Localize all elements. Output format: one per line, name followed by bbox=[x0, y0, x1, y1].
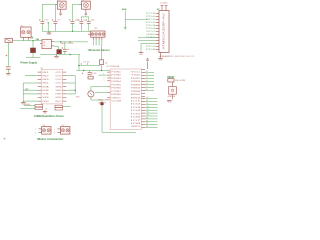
svg-text:NC: NC bbox=[55, 101, 63, 103]
connector X5 motor B bbox=[61, 127, 70, 135]
svg-text:BUZZER: BUZZER bbox=[98, 99, 112, 101]
svg-text:P1/IN1: P1/IN1 bbox=[111, 72, 121, 74]
svg-text:7805T TO220: 7805T TO220 bbox=[60, 43, 73, 45]
svg-text:10u: 10u bbox=[67, 49, 70, 51]
wire sense row 2 bbox=[20, 107, 35, 109]
connector JP2 sensor header bbox=[91, 31, 105, 37]
wire mid ground rail bbox=[76, 70, 110, 72]
ground symbol top rail bbox=[48, 31, 50, 33]
svg-text:X3: X3 bbox=[43, 125, 45, 127]
wire R2 to rail bbox=[101, 65, 103, 71]
svg-text:D3: D3 bbox=[146, 80, 148, 82]
svg-text:ENB: ENB bbox=[42, 90, 50, 92]
wire from X4 left pin bbox=[73, 3, 80, 5]
svg-text:C11 10n: C11 10n bbox=[83, 62, 90, 64]
IC4 left pins with labels bbox=[156, 13, 160, 15]
IC4 bottom stub and gnd bbox=[160, 53, 162, 59]
svg-text:100u: 100u bbox=[44, 20, 48, 22]
svg-text:ENA: ENA bbox=[42, 85, 50, 88]
origin cross mark bbox=[3, 137, 6, 140]
svg-text:JP2: JP2 bbox=[94, 28, 97, 30]
svg-text:D10: D10 bbox=[146, 106, 149, 108]
wire down to C5 bbox=[88, 17, 90, 19]
wire ground rail mid bbox=[40, 54, 80, 56]
plus marks on 5V line bbox=[81, 63, 89, 64]
wire second output pin bbox=[54, 45, 58, 47]
wire R1 to switch bbox=[172, 82, 174, 87]
svg-text:SENSA: SENSA bbox=[24, 103, 31, 106]
junction 5V line bbox=[78, 65, 79, 66]
IC1 left pin wires bbox=[25, 75, 38, 77]
ground symbol under C6 bbox=[6, 73, 11, 75]
junction mid rail a bbox=[83, 70, 84, 71]
ground symbol mid rail bbox=[56, 55, 58, 57]
capacitor C3 bbox=[72, 19, 74, 21]
svg-text:GND: GND bbox=[47, 34, 52, 36]
svg-text:L298N Dual Motor Driver: L298N Dual Motor Driver bbox=[34, 114, 65, 118]
svg-text:IO6: IO6 bbox=[131, 117, 141, 119]
pin stubs X5 bbox=[57, 128, 60, 130]
svg-text:GND: GND bbox=[42, 101, 49, 103]
capacitor C4 bbox=[80, 19, 82, 21]
wire 5V output bbox=[54, 41, 88, 43]
wire C8 down bbox=[57, 46, 59, 49]
svg-text:GND1: GND1 bbox=[111, 97, 121, 99]
ground rail wire top bbox=[42, 30, 93, 32]
ground under bend bbox=[139, 52, 144, 54]
svg-text:D6: D6 bbox=[146, 89, 148, 91]
connector X4 power jack bbox=[82, 1, 91, 9]
wire X2 pins down bbox=[22, 40, 24, 41]
svg-text:PWM1: PWM1 bbox=[131, 81, 141, 83]
svg-text:D7: D7 bbox=[146, 97, 148, 99]
svg-text:ARDUINO UNO R3: ARDUINO UNO R3 bbox=[175, 55, 195, 58]
svg-text:D9: D9 bbox=[146, 103, 148, 105]
svg-text:P7/IN7: P7/IN7 bbox=[111, 91, 121, 93]
svg-text:PD3: PD3 bbox=[146, 25, 155, 27]
wire X4 bottom net bbox=[85, 16, 87, 18]
svg-text:IO4: IO4 bbox=[131, 110, 141, 112]
wire down to C3 bbox=[72, 4, 74, 19]
svg-text:IO5: IO5 bbox=[131, 113, 141, 115]
svg-text:GND: GND bbox=[55, 57, 60, 59]
wires JP2 down bbox=[92, 40, 94, 46]
svg-text:IC3 ULN2803A: IC3 ULN2803A bbox=[107, 65, 120, 68]
pin stubs JP2 bottom bbox=[92, 37, 94, 40]
wire IC3 left pin c bbox=[95, 92, 107, 94]
svg-text:OUT1: OUT1 bbox=[55, 72, 61, 74]
wire net from X1 left pin bbox=[42, 3, 55, 5]
resistor R7 on vertical bbox=[100, 102, 103, 105]
IC1 right pin stubs bbox=[63, 71, 67, 73]
svg-text:VSS: VSS bbox=[42, 97, 50, 99]
svg-text:P6/IN6: P6/IN6 bbox=[111, 88, 121, 90]
svg-text:VIN: VIN bbox=[36, 39, 40, 41]
svg-text:1: 1 bbox=[103, 73, 104, 75]
wire 5V rail drop bbox=[78, 55, 80, 71]
junction top rail bbox=[72, 31, 73, 32]
svg-text:1: 1 bbox=[54, 129, 55, 131]
supply +5V arrow under X4 bbox=[85, 12, 87, 16]
wire down to C2 bbox=[54, 4, 56, 19]
svg-text:OUT3: OUT3 bbox=[55, 79, 61, 81]
wire down to C1 bbox=[41, 4, 43, 19]
IC3 right pins top group bbox=[142, 68, 146, 70]
svg-text:PD5: PD5 bbox=[146, 46, 155, 48]
wire bend down to gnd bbox=[140, 44, 142, 53]
IC4 top power stubs bbox=[161, 6, 163, 11]
svg-text:PD6: PD6 bbox=[146, 49, 155, 51]
diode D1 bbox=[5, 38, 12, 42]
ground under left bus bbox=[22, 101, 24, 102]
wire right bus vertical bbox=[74, 76, 76, 94]
svg-text:PD2: PD2 bbox=[146, 22, 155, 24]
svg-text:1: 1 bbox=[35, 129, 36, 131]
svg-text:SDA: SDA bbox=[122, 8, 127, 11]
wire IC3 left pin a bbox=[99, 74, 108, 76]
svg-text:D13: D13 bbox=[146, 115, 149, 117]
svg-text:IO8: IO8 bbox=[131, 123, 141, 125]
wire buzzer top bbox=[90, 87, 92, 91]
wire C7 to gnd wire bbox=[32, 53, 34, 58]
junction mid rail bbox=[69, 54, 70, 55]
svg-text:P3/IN3: P3/IN3 bbox=[111, 78, 121, 80]
svg-text:X5: X5 bbox=[62, 125, 64, 127]
svg-text:IO7: IO7 bbox=[131, 120, 141, 122]
svg-text:P5/IN5: P5/IN5 bbox=[111, 84, 121, 86]
pushbutton S1 bbox=[169, 87, 177, 95]
svg-text:10k: 10k bbox=[105, 62, 108, 64]
junction right bus bbox=[75, 90, 76, 91]
svg-text:05: 05 bbox=[43, 45, 45, 47]
svg-text:VCC: VCC bbox=[131, 72, 142, 74]
electrolytic capacitor C8 body bbox=[57, 49, 62, 54]
svg-text:IN1: IN1 bbox=[42, 72, 48, 74]
IC1 left pin stubs bbox=[38, 71, 42, 73]
IC3 driver IC box bbox=[110, 69, 141, 130]
svg-text:2: 2 bbox=[104, 77, 105, 79]
wire C6 to ground bbox=[7, 69, 9, 73]
svg-text:D12: D12 bbox=[146, 112, 149, 114]
svg-text:Power Supply: Power Supply bbox=[21, 60, 38, 64]
wire down to C4 bbox=[80, 17, 82, 19]
svg-text:VS: VS bbox=[42, 94, 50, 96]
svg-text:PD4: PD4 bbox=[146, 28, 155, 30]
junction 5V out 2 bbox=[69, 41, 70, 42]
pin stub JP2 left bbox=[88, 33, 91, 35]
net wire branch to IC4 bbox=[125, 19, 148, 21]
wire S1 to gnd bbox=[172, 94, 174, 99]
pin stub X4 bottom bbox=[85, 9, 87, 12]
pin stub X1 bottom bbox=[60, 9, 62, 12]
svg-text:2: 2 bbox=[54, 133, 55, 135]
svg-text:OUT4: OUT4 bbox=[55, 83, 61, 85]
svg-text:SENA: SENA bbox=[55, 85, 62, 88]
wire sense right bbox=[63, 106, 71, 108]
svg-text:X1: X1 bbox=[57, 0, 59, 2]
svg-text:GND: GND bbox=[6, 75, 11, 77]
svg-text:VCC: VCC bbox=[146, 31, 157, 33]
wire junction down to C7 bbox=[32, 41, 34, 48]
pin stubs X3 bbox=[38, 128, 41, 130]
svg-text:A6: A6 bbox=[146, 125, 148, 128]
svg-text:GND2: GND2 bbox=[55, 97, 61, 99]
svg-text:GND: GND bbox=[146, 34, 157, 36]
buzzer SG1 circle bbox=[88, 91, 94, 97]
svg-text:A4: A4 bbox=[146, 119, 148, 122]
connector X1 battery terminal bbox=[57, 1, 66, 9]
svg-text:2: 2 bbox=[35, 133, 36, 135]
capacitor C5 bbox=[88, 19, 90, 21]
svg-text:PD0: PD0 bbox=[146, 16, 155, 18]
svg-text:ATMEGA328P-AU: ATMEGA328P-AU bbox=[163, 13, 166, 49]
resistor R3 bbox=[88, 76, 93, 79]
wire buzzer bottom bbox=[90, 97, 92, 100]
svg-text:PC6: PC6 bbox=[146, 13, 155, 15]
svg-text:PWM4: PWM4 bbox=[131, 91, 141, 93]
svg-text:D5: D5 bbox=[146, 86, 148, 88]
net cross stub bbox=[124, 26, 127, 29]
electrolytic capacitor C7 body bbox=[30, 48, 36, 53]
svg-text:GND: GND bbox=[159, 59, 164, 61]
IC1 right pin wires bbox=[66, 75, 75, 77]
wire stub above gnd bbox=[47, 23, 49, 31]
connector X2 power supply input bbox=[21, 27, 31, 37]
ground sense bbox=[44, 110, 46, 111]
pin stub IC2 input bbox=[40, 43, 42, 45]
svg-text:OUT2: OUT2 bbox=[55, 75, 61, 77]
capacitor C10 under rail bbox=[88, 72, 92, 74]
svg-text:IC1: IC1 bbox=[40, 68, 43, 70]
junction 5V out 1 bbox=[60, 41, 61, 42]
svg-text:A5: A5 bbox=[146, 122, 148, 125]
svg-text:GND: GND bbox=[139, 54, 144, 56]
svg-text:IO3: IO3 bbox=[131, 107, 141, 109]
ground under S1 bbox=[167, 100, 172, 102]
sense resistor R8 body bbox=[55, 108, 63, 110]
wire sensor sig down bbox=[101, 40, 103, 46]
wire mid 5V line bbox=[78, 65, 100, 67]
wires above IC3 to IC4 bbox=[138, 37, 156, 39]
svg-text:GND2: GND2 bbox=[131, 126, 141, 128]
svg-text:PWM2: PWM2 bbox=[131, 84, 141, 86]
IC1 L298 box bbox=[41, 70, 63, 104]
svg-text:P4/IN4: P4/IN4 bbox=[111, 81, 121, 83]
capacitor C6 bbox=[6, 66, 11, 68]
svg-text:D8: D8 bbox=[146, 100, 148, 102]
svg-text:TXD: TXD bbox=[131, 75, 142, 77]
svg-text:100n: 100n bbox=[75, 20, 79, 22]
IC3 right pins bottom group bbox=[142, 98, 146, 100]
svg-text:P2/IN2: P2/IN2 bbox=[111, 75, 121, 77]
supply +12V arrow under X1 bbox=[59, 12, 61, 16]
svg-text:GND: GND bbox=[167, 102, 172, 104]
svg-text:VCC AVCC: VCC AVCC bbox=[160, 1, 169, 4]
svg-text:SENB: SENB bbox=[55, 90, 62, 92]
svg-text:IN4: IN4 bbox=[42, 83, 48, 85]
pin stubs X2 bottom bbox=[22, 37, 24, 39]
svg-text:D2: D2 bbox=[146, 77, 148, 79]
svg-text:P8/IN8: P8/IN8 bbox=[111, 94, 121, 96]
pin stub X1 left bbox=[55, 4, 57, 6]
svg-text:10k 1/4W: 10k 1/4W bbox=[175, 80, 186, 82]
svg-text:IN2: IN2 bbox=[42, 75, 48, 77]
svg-text:X2: X2 bbox=[21, 26, 23, 28]
plus mark polarized C6 bbox=[6, 55, 8, 57]
IC3 top pin supply bbox=[147, 62, 149, 69]
sense resistor R4 body bbox=[35, 105, 43, 107]
IC4 microcontroller box bbox=[159, 11, 169, 53]
pin stubs IC2 output bbox=[51, 41, 54, 43]
resistor R1 reset pullup bbox=[168, 79, 174, 82]
pin stub X4 left bbox=[79, 4, 81, 6]
svg-text:RESET-SW: RESET-SW bbox=[168, 96, 176, 98]
wire D1 down to C6 bbox=[7, 43, 9, 66]
svg-text:PWM3: PWM3 bbox=[131, 88, 141, 90]
wire sense row 1 bbox=[24, 105, 35, 107]
svg-text:ISEN: ISEN bbox=[55, 94, 62, 96]
IC3 left pin stubs bbox=[107, 71, 110, 73]
svg-text:3: 3 bbox=[104, 80, 105, 82]
svg-text:IO1: IO1 bbox=[131, 100, 141, 102]
sense resistor R5 body bbox=[35, 107, 43, 109]
svg-text:COM: COM bbox=[111, 100, 122, 102]
capacitor C1 bbox=[41, 19, 43, 21]
wire long vertical to bottom bbox=[101, 100, 103, 102]
capacitor C2 bbox=[54, 19, 56, 21]
net wire vertical x125 bbox=[124, 11, 126, 29]
regulator IC2 7805 bbox=[42, 39, 51, 48]
svg-text:R3 10k: R3 10k bbox=[91, 73, 97, 75]
svg-text:GND: GND bbox=[76, 96, 81, 98]
svg-text:0.5: 0.5 bbox=[45, 108, 48, 110]
svg-text:D4: D4 bbox=[146, 83, 148, 85]
svg-text:PB6: PB6 bbox=[146, 37, 155, 39]
svg-text:A3: A3 bbox=[146, 116, 148, 119]
wire vertical left bus bbox=[22, 83, 24, 101]
junction mid rail b bbox=[101, 70, 102, 71]
svg-text:10u: 10u bbox=[57, 20, 60, 22]
sense resistor R6 body bbox=[55, 105, 63, 107]
svg-text:Ultrasonic Sensor: Ultrasonic Sensor bbox=[88, 48, 111, 52]
wire horizontal VIN rail left bbox=[5, 40, 42, 42]
svg-text:EN1: EN1 bbox=[131, 94, 141, 96]
svg-text:X4: X4 bbox=[82, 0, 84, 2]
ground wire short bbox=[26, 57, 41, 59]
connector X3 motor A bbox=[42, 127, 51, 135]
svg-text:RXD: RXD bbox=[131, 78, 142, 80]
svg-text:ATMEGA328P-PU: ATMEGA328P-PU bbox=[160, 55, 174, 58]
svg-text:D11: D11 bbox=[146, 109, 149, 111]
junction VIN rail bbox=[32, 40, 33, 41]
capacitor C9 bbox=[64, 42, 66, 49]
svg-text:IN3: IN3 bbox=[42, 79, 48, 81]
resistor R2 bbox=[100, 60, 104, 65]
svg-text:EN2: EN2 bbox=[131, 97, 141, 99]
svg-text:Motor Connector: Motor Connector bbox=[37, 137, 64, 141]
svg-text:IO2: IO2 bbox=[131, 104, 141, 106]
svg-text:100n: 100n bbox=[91, 20, 95, 22]
